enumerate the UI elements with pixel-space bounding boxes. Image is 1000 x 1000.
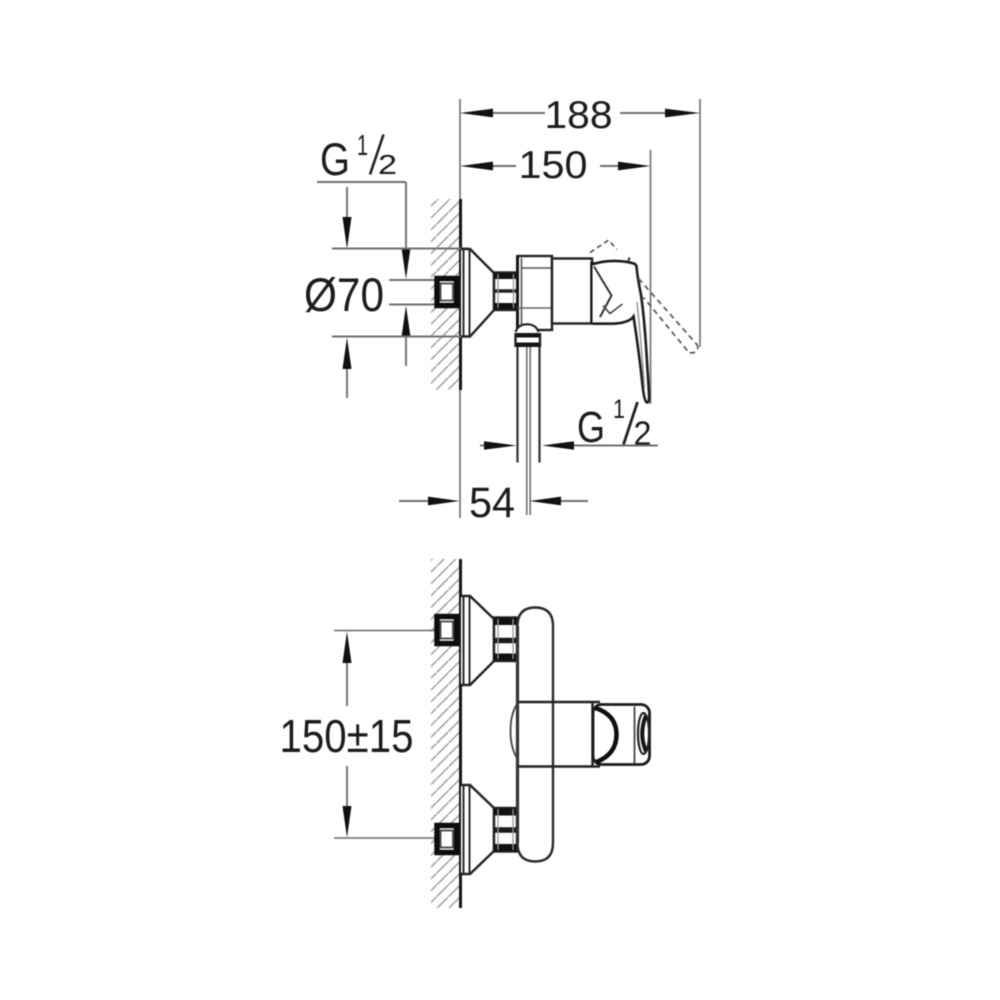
lower wall union square	[437, 826, 457, 853]
svg-text:150±15: 150±15	[280, 710, 414, 762]
dimension 150	[493, 165, 516, 167]
arrow up x=406	[402, 306, 411, 338]
svg-text:G: G	[320, 134, 350, 185]
dimension arrow down x=347	[346, 187, 348, 220]
upper hex nut	[494, 618, 517, 662]
hex union nut top view	[494, 273, 518, 311]
dimension 150±15	[343, 632, 352, 664]
G1/2 leader arrow down	[402, 248, 411, 279]
dashed lever	[639, 279, 697, 345]
lower escutcheon cone	[461, 785, 494, 874]
handle inner lines	[594, 267, 612, 318]
extension line at wall x=460	[459, 99, 461, 199]
outlet tube	[516, 347, 518, 463]
wall line bottom view	[459, 559, 462, 908]
lower hex nut	[494, 808, 517, 852]
wall line top view	[459, 199, 462, 390]
body capsule bottom view	[518, 608, 554, 862]
wall union square top view	[437, 279, 457, 306]
svg-text:54: 54	[469, 479, 515, 527]
svg-text:1: 1	[613, 394, 625, 424]
hose outlet dome	[516, 324, 539, 332]
extension line 150 right	[650, 150, 652, 404]
lever inner shading line	[637, 302, 644, 388]
handle dashed raised position	[590, 240, 617, 252]
knob end cap line	[634, 707, 636, 764]
dimension 150±15 extension lines	[334, 630, 437, 632]
upper wall union square	[437, 617, 457, 644]
upper escutcheon cone	[461, 596, 494, 685]
handle knob bottom view	[593, 705, 650, 765]
wall hatching top view	[431, 199, 460, 390]
svg-text:1: 1	[357, 130, 368, 162]
svg-text:150: 150	[519, 144, 588, 187]
wall hatching bottom view	[431, 559, 460, 908]
arrow up x=347	[343, 338, 352, 370]
cartridge body	[552, 259, 592, 324]
valve connection block	[518, 256, 553, 330]
G1/2 leader vertical	[405, 182, 407, 249]
cartridge protrusion lines	[518, 701, 600, 703]
svg-text:188: 188	[545, 94, 613, 137]
supply elbow bulge	[511, 703, 518, 759]
escutcheon cone top view	[461, 249, 494, 337]
dimension 188	[493, 112, 545, 114]
svg-text:2: 2	[634, 415, 652, 453]
escutcheon bottom extension line	[332, 336, 461, 338]
hose nut	[515, 333, 542, 347]
svg-text:Ø70: Ø70	[304, 268, 384, 321]
G1/2 underline	[317, 181, 406, 183]
svg-text:2: 2	[378, 149, 397, 180]
dimension 54	[399, 500, 429, 502]
tube thread dimension arrows	[480, 445, 486, 447]
extension line 188 right	[699, 99, 701, 347]
handle solid	[593, 261, 650, 403]
knob end ellipse	[638, 713, 649, 754]
leader lines of diameter 70	[389, 279, 436, 281]
escutcheon top extension line	[332, 248, 468, 250]
cartridge dome crescent	[596, 708, 617, 762]
handle top nub	[628, 258, 630, 263]
